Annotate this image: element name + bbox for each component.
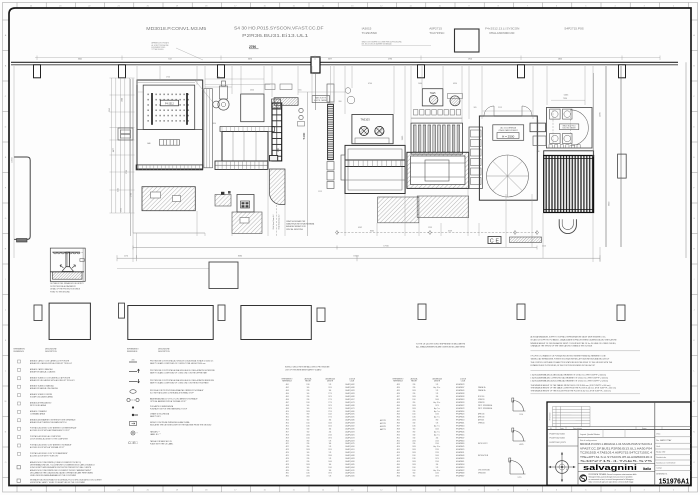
svg-text:304: 304 — [329, 390, 332, 392]
svg-text:I PULPITI DI COMANDO E LE POST: I PULPITI DI COMANDO E LE POSTAZIONI DEV… — [531, 355, 607, 358]
svg-text:2030: 2030 — [306, 464, 310, 466]
svg-text:SPAZI NECESSARI PER: SPAZI NECESSARI PER — [286, 220, 306, 223]
svg-text:□R48: □R48 — [396, 428, 400, 430]
svg-text:830: 830 — [307, 390, 310, 392]
svg-text:830: 830 — [413, 384, 416, 386]
svg-text:PUSHBUTTON FOR THE EMERGENCY S: PUSHBUTTON FOR THE EMERGENCY STOP — [150, 409, 188, 411]
svg-text:LIST OF THE WIRE MESH SAFETY G: LIST OF THE WIRE MESH SAFETY GUARD — [285, 368, 322, 371]
svg-text:204: 204 — [436, 437, 439, 439]
svg-text:1974: 1974 — [328, 405, 332, 407]
svg-text:□R29: □R29 — [285, 467, 289, 469]
svg-text:EQUIPMENT FIXED: EQUIPMENT FIXED — [152, 47, 167, 49]
svg-text:3641: 3641 — [78, 59, 82, 61]
svg-text:900: 900 — [307, 431, 310, 433]
svg-text:900: 900 — [307, 467, 310, 469]
svg-text:2030: 2030 — [412, 464, 416, 466]
svg-text:□R08: □R08 — [285, 405, 289, 407]
svg-text:1100: 1100 — [306, 423, 309, 425]
svg-text:574: 574 — [436, 393, 439, 395]
svg-text:1770: 1770 — [518, 477, 522, 479]
svg-text:□R15: □R15 — [285, 426, 289, 428]
svg-text:□R24: □R24 — [285, 452, 289, 454]
svg-text:1890: 1890 — [212, 123, 216, 125]
svg-text:□R19: □R19 — [285, 437, 289, 439]
svg-text:AREA FOR ACTUATING THE MAIN SW: AREA FOR ACTUATING THE MAIN SWITCH — [30, 421, 67, 424]
svg-text:830: 830 — [307, 458, 310, 460]
svg-text:1974: 1974 — [435, 458, 439, 460]
svg-text:DESCRIPTION: DESCRIPTION — [158, 351, 170, 353]
svg-text:574: 574 — [329, 452, 332, 454]
svg-text:□R39: □R39 — [396, 402, 400, 404]
svg-text:COMMAND AREA: COMMAND AREA — [30, 412, 46, 415]
svg-text:□R13: □R13 — [285, 420, 289, 422]
svg-text:□R16: □R16 — [285, 428, 289, 430]
svg-text:900: 900 — [307, 405, 310, 407]
svg-text:□R36: □R36 — [396, 393, 400, 395]
svg-text:PLATE WITH THE CE LABEL: PLATE WITH THE CE LABEL — [150, 443, 173, 446]
svg-text:REFERENCE: REFERENCE — [14, 351, 25, 353]
svg-text:□R20: □R20 — [285, 440, 289, 442]
svg-text:1404: 1404 — [435, 455, 439, 457]
svg-text:SONO EFFETTUATE MEDIANTE DISPO: SONO EFFETTUATE MEDIANTE DISPOSITIVI PRE… — [30, 466, 92, 469]
svg-text:HEIGHT: HEIGHT — [411, 381, 417, 383]
svg-text:SPED/UNO: SPED/UNO — [478, 473, 487, 475]
svg-text:AREA FOR BANCAL LOADING: AREA FOR BANCAL LOADING — [30, 370, 56, 373]
svg-text:2714: 2714 — [328, 411, 332, 413]
svg-text:USING DEVICES MADE AVAILABLE B: USING DEVICES MADE AVAILABLE BY THE CUST… — [30, 474, 77, 477]
svg-text:THE CONTROL UNITS AND PUSHBUTT: THE CONTROL UNITS AND PUSHBUTTON STATION… — [531, 361, 613, 364]
svg-text:ROX 800: ROX 800 — [478, 396, 484, 398]
svg-text:2030: 2030 — [412, 408, 416, 410]
svg-text:1310: 1310 — [328, 449, 332, 451]
svg-text:RIFERIMENTO: RIFERIMENTO — [282, 378, 293, 380]
svg-text:574: 574 — [329, 476, 332, 478]
svg-text:ACCESS DOOR WITH AN “EMERGENCY: ACCESS DOOR WITH AN “EMERGENCY STOP” — [30, 429, 70, 432]
svg-text:TC2915SD.4.TAE103.4.A0P2715.S4: TC2915SD.4.TAE103.4.A0P2715.S4TC2715SC.4 — [580, 452, 653, 455]
svg-text:DI PROTEZIONE AL PAVIMENTO: DI PROTEZIONE AL PAVIMENTO — [50, 285, 76, 288]
svg-text:□R07: □R07 — [285, 402, 289, 404]
svg-text:390: 390 — [217, 77, 220, 79]
svg-text:2030: 2030 — [412, 396, 416, 398]
svg-text:IA3015: IA3015 — [362, 26, 372, 30]
svg-text:THE MINIMUM HEIGHT OF THE TABL: THE MINIMUM HEIGHT OF THE TABLES FROM TH… — [531, 384, 611, 387]
svg-text:□R62: □R62 — [396, 470, 400, 472]
svg-text:Firma: Firma — [642, 427, 646, 430]
svg-text:730: 730 — [537, 151, 540, 153]
svg-text:151976A1: 151976A1 — [659, 476, 690, 485]
svg-text:1404: 1404 — [435, 399, 439, 401]
svg-text:2030: 2030 — [412, 405, 416, 407]
svg-text:TAE103: TAE103 — [361, 118, 371, 122]
svg-text:□R09: □R09 — [285, 408, 289, 410]
svg-text:OPTICAL BARRIER WITH A “NORMAL: OPTICAL BARRIER WITH A “NORMAL STOP” — [150, 400, 187, 403]
svg-text:574: 574 — [329, 384, 332, 386]
svg-text:1910: 1910 — [468, 59, 472, 61]
svg-text:□R10: □R10 — [285, 411, 289, 413]
svg-text:574: 574 — [436, 423, 439, 425]
svg-text:□R06: □R06 — [285, 399, 289, 401]
svg-text:2030: 2030 — [412, 461, 416, 463]
svg-text:890: 890 — [413, 431, 416, 433]
svg-text:AREA FOR BANCAL UNLOADING: AREA FOR BANCAL UNLOADING — [30, 387, 58, 390]
svg-text:3040: 3040 — [109, 108, 111, 112]
svg-text:2854: 2854 — [558, 59, 562, 61]
svg-text:1130: 1130 — [412, 426, 415, 428]
svg-text:1104: 1104 — [328, 467, 331, 469]
svg-text:□R43: □R43 — [396, 414, 400, 416]
svg-text:2790: 2790 — [130, 193, 132, 197]
svg-text:890: 890 — [413, 402, 416, 404]
svg-text:□R23: □R23 — [285, 449, 289, 451]
svg-text:1044: 1044 — [122, 98, 124, 102]
svg-text:REFERENCE: REFERENCE — [282, 381, 292, 383]
svg-text:AREA FOR UNLOADING WITH A FORK: AREA FOR UNLOADING WITH A FORKLIFT TROLL… — [30, 379, 75, 382]
svg-text:SPRE220: SPRE220 — [478, 399, 485, 401]
svg-text:HORIZONTAL SAFETY SIGNS TO BE: HORIZONTAL SAFETY SIGNS TO BE APPLIED BY… — [30, 481, 86, 484]
svg-text:□R05: □R05 — [285, 396, 289, 398]
svg-text:F4+2S12.13.LI.SYSCON: F4+2S12.13.LI.SYSCON — [485, 26, 519, 30]
svg-text:RIFERIMENTO: RIFERIMENTO — [393, 378, 404, 380]
svg-text:1100: 1100 — [412, 455, 415, 457]
svg-text:LABEL NO. **: LABEL NO. ** — [150, 433, 161, 436]
svg-text:1774: 1774 — [328, 399, 332, 401]
svg-text:890: 890 — [436, 420, 439, 422]
svg-text:A125: A125 — [520, 443, 524, 446]
svg-text:10816: 10816 — [12, 156, 14, 162]
svg-text:1060: 1060 — [418, 83, 422, 85]
svg-text:□R58: □R58 — [396, 458, 400, 460]
svg-text:□R57: □R57 — [396, 455, 400, 457]
svg-text:□R18: □R18 — [285, 434, 289, 436]
svg-text:□R34: □R34 — [396, 387, 400, 389]
svg-text:□R40: □R40 — [396, 405, 400, 407]
svg-text:H = 2500: H = 2500 — [502, 134, 515, 138]
svg-text:574: 574 — [329, 446, 332, 448]
svg-text:2030: 2030 — [306, 476, 310, 478]
svg-text:□R56: □R56 — [396, 452, 400, 454]
svg-text:THE MINIMUM HEIGHT OF THE TABL: THE MINIMUM HEIGHT OF THE TABLE COVER FR… — [531, 387, 617, 390]
svg-text:7934: 7934 — [563, 98, 567, 100]
svg-text:574: 574 — [329, 458, 332, 460]
svg-text:□R42: □R42 — [396, 411, 400, 413]
svg-text:900: 900 — [413, 473, 416, 475]
svg-text:□R54: □R54 — [396, 446, 400, 448]
svg-text:2030: 2030 — [412, 390, 416, 392]
svg-text:FIXED TO THE GROUND: FIXED TO THE GROUND — [50, 291, 70, 293]
svg-text:□R61: □R61 — [396, 467, 400, 469]
svg-text:1234: 1234 — [435, 452, 439, 454]
svg-text:TC2915SD: TC2915SD — [362, 31, 378, 35]
svg-text:890: 890 — [307, 417, 310, 419]
svg-text:17940: 17940 — [383, 245, 388, 247]
svg-text:1974: 1974 — [328, 396, 332, 398]
svg-text:□R51: □R51 — [396, 437, 400, 439]
svg-text:HEIGHT: HEIGHT — [305, 381, 311, 383]
svg-text:1404: 1404 — [328, 423, 332, 425]
svg-text:2104: 2104 — [435, 440, 439, 442]
svg-text:□R14: □R14 — [285, 423, 289, 425]
svg-text:3677: 3677 — [328, 59, 332, 61]
svg-text:4700: 4700 — [368, 83, 372, 85]
svg-text:ACCESS DOOR WITH A “NORMAL STO: ACCESS DOOR WITH A “NORMAL STOP” — [30, 446, 65, 449]
svg-text:SCRAP UNLOADING AREA: SCRAP UNLOADING AREA — [30, 396, 53, 399]
svg-text:□R63: □R63 — [396, 473, 400, 475]
svg-text:P2R36.BU31.Ei13.UL1: P2R36.BU31.Ei13.UL1 — [242, 33, 309, 38]
svg-text:2904: 2904 — [328, 455, 332, 457]
svg-text:□R02: □R02 — [285, 387, 289, 389]
svg-text:2030: 2030 — [131, 360, 134, 362]
svg-text:SPECIAL SERVICING: SPECIAL SERVICING — [286, 228, 303, 231]
svg-text:□R21: □R21 — [285, 443, 289, 445]
svg-text:□R30: □R30 — [285, 470, 289, 472]
svg-text:2115: 2115 — [498, 107, 502, 109]
svg-text:1310: 1310 — [328, 387, 332, 389]
svg-text:830: 830 — [307, 396, 310, 398]
svg-text:204: 204 — [436, 464, 439, 466]
svg-text:655: 655 — [299, 90, 302, 92]
svg-text:2350: 2350 — [250, 90, 254, 92]
svg-text:1115: 1115 — [318, 191, 322, 193]
svg-text:1974: 1974 — [328, 408, 332, 410]
svg-text:SAFETY GUARD COMPOSED OF 1 GRI: SAFETY GUARD COMPOSED OF 1 GRID ONLY ON … — [150, 372, 208, 375]
svg-text:□R32: □R32 — [285, 476, 289, 478]
svg-text:□R35: □R35 — [396, 390, 400, 392]
svg-text:□R47: □R47 — [396, 426, 400, 428]
svg-text:L' ALTEZZA MINIMA DEL COPERCH: L' ALTEZZA MINIMA DEL COPERCHIO DAL PAVI… — [531, 376, 609, 379]
svg-text:830: 830 — [413, 393, 416, 395]
svg-text:EXPANSION BOLTS PROVIDED, IN T: EXPANSION BOLTS PROVIDED, IN THE POSITIO… — [531, 364, 597, 367]
svg-text:□R44: □R44 — [396, 417, 400, 419]
svg-text:□R60: □R60 — [396, 464, 400, 466]
svg-text:SPRE220: SPRE220 — [478, 402, 485, 404]
svg-text:1774: 1774 — [328, 402, 332, 404]
svg-text:304: 304 — [329, 420, 332, 422]
svg-text:3249: 3249 — [448, 231, 452, 233]
svg-text:ne comunicato a terzi; in caso: ne comunicato a terzi; in caso di trasgr… — [589, 478, 634, 481]
svg-text:A0P2715: A0P2715 — [429, 26, 442, 30]
svg-text:Compl.: Compl. — [656, 468, 662, 470]
svg-text:900: 900 — [307, 408, 310, 410]
svg-text:F01377002 5484: F01377002 5484 — [550, 438, 566, 440]
svg-text:2104: 2104 — [435, 443, 439, 445]
svg-text:1115: 1115 — [542, 246, 546, 248]
svg-text:1100: 1100 — [412, 414, 415, 416]
svg-text:PROPRIETA' PRIVATA - Senza la: PROPRIETA' PRIVATA - Senza la espressa a… — [589, 473, 637, 476]
svg-text:AREA NECESSARY FOR: AREA NECESSARY FOR — [286, 225, 306, 228]
svg-text:□R41: □R41 — [396, 408, 400, 410]
svg-text:2104: 2104 — [435, 461, 439, 463]
svg-text:1100: 1100 — [306, 402, 309, 404]
svg-text:890: 890 — [307, 440, 310, 442]
svg-text:□R26: □R26 — [285, 458, 289, 460]
svg-text:1100: 1100 — [412, 467, 415, 469]
svg-text:Visto: Visto — [656, 432, 660, 435]
svg-text:MD3018.P.CONV1.M3.M5: MD3018.P.CONV1.M3.M5 — [146, 26, 207, 31]
svg-text:2030: 2030 — [412, 440, 416, 442]
svg-text:□R28: □R28 — [285, 464, 289, 466]
svg-text:Dis. MAZZOTTAV: Dis. MAZZOTTAV — [656, 439, 672, 442]
svg-text:J: J — [694, 310, 695, 312]
svg-text:830: 830 — [413, 423, 416, 425]
svg-text:1130: 1130 — [306, 473, 309, 475]
svg-text:Italia si riserva di agire per: Italia si riserva di agire per ogni dann… — [589, 480, 634, 483]
svg-text:Italia: Italia — [643, 467, 651, 471]
svg-text:ALL'OCCORRENZA: ALL'OCCORRENZA — [501, 127, 517, 130]
svg-text:L' ALTEZZA MINIMA DELLA TAVOLA: L' ALTEZZA MINIMA DELLA TAVOLA DAL PAVIM… — [531, 374, 607, 377]
svg-text:613: 613 — [168, 59, 171, 61]
svg-text:1130: 1130 — [306, 426, 309, 428]
svg-text:830: 830 — [307, 399, 310, 401]
svg-text:1404: 1404 — [328, 461, 332, 463]
svg-text:F00377002 5484: F00377002 5484 — [550, 434, 566, 436]
svg-text:DETTAGLIO DEL FISSAGGIO DELLE: DETTAGLIO DEL FISSAGGIO DELLE RETI — [50, 282, 84, 285]
svg-text:□R53: □R53 — [396, 443, 400, 445]
svg-text:830: 830 — [307, 455, 310, 457]
svg-text:MINIMUM HEIGHT OF CEILING ABOV: MINIMUM HEIGHT OF CEILING ABOVE TACM* CO… — [531, 342, 617, 345]
svg-text:260: 260 — [339, 101, 342, 103]
svg-text:1974: 1974 — [328, 437, 332, 439]
svg-text:SPRE220: SPRE220 — [478, 423, 485, 425]
svg-text:□R01: □R01 — [285, 384, 289, 386]
svg-text:SLO WITH A SLIDING COVER AND A: SLO WITH A SLIDING COVER AND A “NORMAL S… — [150, 392, 194, 395]
svg-text:900: 900 — [307, 420, 310, 422]
svg-text:□R33: □R33 — [396, 384, 400, 386]
svg-text:□R11: □R11 — [285, 414, 289, 416]
svg-text:1234: 1234 — [435, 414, 439, 416]
svg-text:4477: 4477 — [113, 148, 115, 152]
svg-text:IN CASO DI SOFFITTO PIU BASSO: IN CASO DI SOFFITTO PIU BASSO, CANALIZZA… — [531, 338, 618, 341]
svg-text:Descrizione: Descrizione — [573, 427, 582, 430]
svg-text:Note di configurazione: Note di configurazione — [580, 439, 597, 442]
svg-text:304: 304 — [329, 464, 332, 466]
svg-text:Sostituisce il 1.59.08.00: Sostituisce il 1.59.08.00 — [656, 461, 675, 464]
svg-text:R.10: R.10 — [520, 414, 524, 416]
svg-text:900: 900 — [307, 393, 310, 395]
svg-text:4350: 4350 — [453, 83, 457, 85]
svg-text:900: 900 — [307, 452, 310, 454]
svg-text:1774: 1774 — [328, 417, 332, 419]
svg-text:P4-2512: P4-2512 — [165, 103, 174, 105]
svg-text:304: 304 — [329, 428, 332, 430]
svg-text:ELENCO DELLE RETI METALLICHE: ELENCO DELLE RETI METALLICHE DI PROTEZIO… — [285, 366, 330, 369]
svg-text:CODE: CODE — [350, 381, 354, 383]
svg-text:2030: 2030 — [412, 446, 416, 448]
svg-text:2030: 2030 — [306, 411, 310, 413]
svg-text:3HALA30/600/130: 3HALA30/600/130 — [489, 31, 515, 35]
svg-text:□R49: □R49 — [396, 431, 400, 433]
svg-text:□R64: □R64 — [396, 476, 400, 478]
svg-text:□R17: □R17 — [285, 431, 289, 433]
svg-text:□R27: □R27 — [285, 461, 289, 463]
svg-text:2030: 2030 — [412, 449, 416, 451]
svg-text:3670: 3670 — [248, 59, 252, 61]
svg-text:574: 574 — [436, 467, 439, 469]
svg-text:2030: 2030 — [306, 434, 310, 436]
svg-text:900: 900 — [413, 428, 416, 430]
svg-text:□R46: □R46 — [396, 423, 400, 425]
svg-text:LENGTH: LENGTH — [434, 381, 440, 383]
svg-text:830: 830 — [413, 434, 416, 436]
svg-text:304: 304 — [329, 443, 332, 445]
svg-text:AREA FOR LOADING WITH A FORKLI: AREA FOR LOADING WITH A FORKLIFT TROLLEY — [30, 362, 73, 365]
svg-text:1974: 1974 — [435, 405, 439, 407]
svg-text:5400: 5400 — [302, 132, 306, 139]
svg-text:204: 204 — [329, 431, 332, 433]
svg-text:1974: 1974 — [328, 473, 332, 475]
svg-text:1130: 1130 — [412, 458, 415, 460]
svg-text:□R37: □R37 — [396, 396, 400, 398]
svg-text:890: 890 — [413, 476, 416, 478]
svg-text:830: 830 — [413, 387, 416, 389]
svg-text:1310: 1310 — [328, 426, 332, 428]
svg-text:HE: HE — [148, 143, 152, 145]
svg-text:2030: 2030 — [412, 452, 416, 454]
svg-text:INDICATES THE UNITS BROUGHT BY: INDICATES THE UNITS BROUGHT BY THE MACHI… — [150, 424, 212, 427]
svg-text:DISEGNO N.: DISEGNO N. — [656, 474, 668, 476]
svg-text:□R25: □R25 — [285, 455, 289, 457]
svg-text:□R52: □R52 — [396, 440, 400, 442]
svg-text:2690: 2690 — [121, 208, 123, 212]
svg-text:CODICE: CODICE — [349, 378, 355, 380]
svg-text:S4P2715.P0S: S4P2715.P0S — [564, 26, 583, 30]
svg-text:REFERENCE: REFERENCE — [393, 381, 403, 383]
svg-text:ACCESS DOOR WITH “TURN ON”: ACCESS DOOR WITH “TURN ON” — [30, 454, 59, 457]
svg-text:574: 574 — [436, 384, 439, 386]
svg-text:F02377002 (C373: F02377002 (C373 — [550, 442, 567, 444]
svg-text:1774: 1774 — [328, 393, 332, 395]
svg-text:Layout Quadri Master: Layout Quadri Master — [580, 433, 600, 436]
svg-text:REVISIONI: REVISIONI — [550, 412, 552, 420]
svg-text:1104: 1104 — [328, 414, 331, 416]
svg-text:1750: 1750 — [166, 77, 170, 79]
svg-text:1130: 1130 — [412, 417, 415, 419]
svg-text:1974: 1974 — [435, 476, 439, 478]
svg-text:830: 830 — [307, 443, 310, 445]
svg-text:1234: 1234 — [435, 473, 439, 475]
svg-text:574: 574 — [329, 440, 332, 442]
svg-text:CHANALIZE THE THROW OF THE VEN: CHANALIZE THE THROW OF THE VENTILATORS T… — [531, 345, 594, 348]
svg-text:19024: 19024 — [353, 256, 358, 258]
svg-text:3135: 3135 — [117, 188, 119, 192]
svg-text:MD3018.P.CONV.1.MD3AOA.1.04.SS: MD3018.P.CONV.1.MD3AOA.1.04.SS.MS.P015.S… — [580, 443, 653, 446]
svg-text:□R55: □R55 — [396, 449, 400, 451]
svg-text:1100: 1100 — [412, 470, 415, 472]
svg-text:VFAST.CC.DF.BU31.P2R36.Ei13.UL: VFAST.CC.DF.BU31.P2R36.Ei13.UL1.HA30.F04 — [580, 447, 653, 450]
svg-text:890: 890 — [307, 414, 310, 416]
svg-text:830: 830 — [413, 411, 416, 413]
svg-text:THE+2PH.S1.S.LI.SYSCON.3H.ALA3: THE+2PH.S1.S.LI.SYSCON.3H.ALA30/600/130.… — [580, 456, 653, 459]
svg-text:900: 900 — [307, 387, 310, 389]
svg-text:□R50: □R50 — [396, 434, 400, 436]
svg-text:1234: 1234 — [435, 449, 439, 451]
svg-text:8380: 8380 — [238, 256, 242, 258]
svg-text:1130: 1130 — [306, 384, 309, 386]
svg-text:□R22: □R22 — [285, 446, 289, 448]
svg-text:□R38: □R38 — [396, 399, 400, 401]
svg-text:MANUTENZIONE STRAORDINARIA: MANUTENZIONE STRAORDINARIA — [286, 223, 315, 226]
svg-text:salvagnini: salvagnini — [583, 463, 637, 472]
svg-text:J: J — [5, 310, 6, 312]
svg-text:Sostituito da: Sostituito da — [656, 456, 666, 459]
svg-text:830: 830 — [307, 461, 310, 463]
svg-text:C E: C E — [490, 238, 500, 244]
svg-text:Data: Data — [560, 427, 564, 430]
svg-text:Scala 1:30: Scala 1:30 — [656, 452, 665, 454]
svg-text:2104: 2104 — [328, 434, 332, 436]
svg-text:S4 30 HO.P015.SYSCON.VFAST.CC.: S4 30 HO.P015.SYSCON.VFAST.CC.DF — [234, 26, 324, 31]
svg-text:830: 830 — [413, 443, 416, 445]
svg-text:TUTTE LE QUOTE SONO ESPRESSE I: TUTTE LE QUOTE SONO ESPRESSE IN MILLIMET… — [416, 344, 466, 346]
